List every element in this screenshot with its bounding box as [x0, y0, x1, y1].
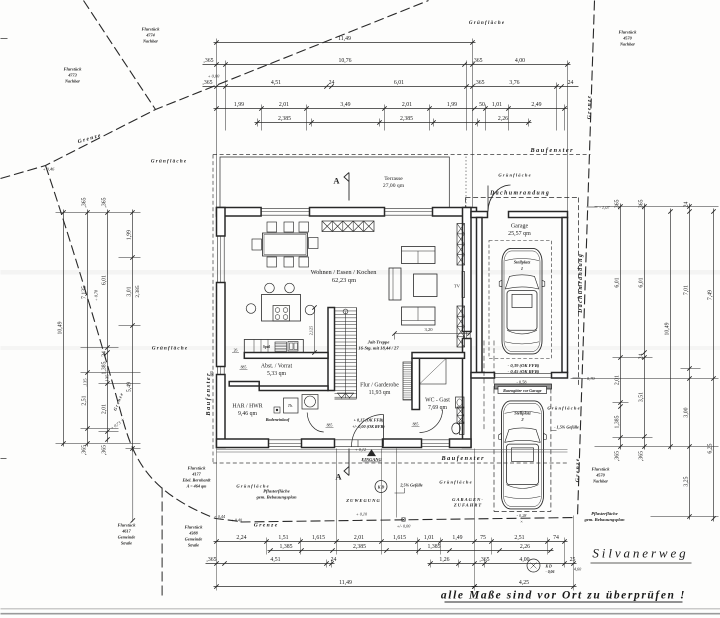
right dim chain R3: [670, 209, 672, 450]
svg-text:Flur / Garderobe: Flur / Garderobe: [360, 383, 399, 389]
svg-text:,365: ,365: [639, 199, 645, 209]
dachumrandung right line: [578, 198, 580, 386]
svg-text:2,01: 2,01: [615, 375, 621, 385]
svg-text:10,49: 10,49: [665, 322, 671, 335]
right dim chain R5: [713, 209, 715, 522]
svg-text:A = 464 qm: A = 464 qm: [186, 484, 207, 489]
svg-text:7,49: 7,49: [708, 290, 714, 300]
svg-text:7,69 qm: 7,69 qm: [428, 405, 447, 411]
svg-text:4388: 4388: [188, 531, 198, 536]
svg-text:G r ü n f l ä c h e: G r ü n f l ä c h e: [152, 347, 188, 352]
svg-text:Silvanerweg: Silvanerweg: [592, 546, 688, 561]
svg-text:,365: ,365: [82, 197, 88, 207]
garage stellplatz 1 dashed: [489, 241, 552, 359]
svg-text:11,49: 11,49: [339, 580, 352, 586]
wall kitchen-vorrat: [244, 353, 328, 359]
svg-text:1,49: 1,49: [452, 535, 462, 541]
grenze boundary bottom-left dashed vertical: [161, 488, 163, 597]
svg-text:62,23 qm: 62,23 qm: [332, 277, 356, 284]
svg-text:G r e n z e: G r e n z e: [254, 523, 278, 529]
bottom dim row 3b: [428, 563, 577, 565]
svg-text:1,615: 1,615: [312, 535, 325, 541]
svg-text:G r ü n f l ä c h e: G r ü n f l ä c h e: [151, 160, 187, 165]
svg-text:885: 885: [241, 366, 247, 370]
svg-text:A: A: [333, 176, 340, 186]
svg-text:alle Maße sind vor Ort zu über: alle Maße sind vor Ort zu überprüfen !: [441, 590, 686, 602]
bodeneinlauf symbol: [274, 407, 280, 413]
dining table: [263, 233, 308, 256]
svg-text:GARAGEN-: GARAGEN-: [452, 497, 484, 502]
right dim chain R4: [689, 204, 691, 520]
svg-text:2,385: 2,385: [135, 285, 141, 297]
svg-text:3,01: 3,01: [127, 286, 133, 296]
garage side door swing: [488, 185, 511, 212]
svg-text:Nachbar: Nachbar: [142, 39, 158, 44]
dotted vertical house corner to baufenster: [465, 157, 467, 208]
sofa bottom: [402, 307, 436, 325]
svg-text:×: ×: [360, 518, 363, 523]
svg-text:885: 885: [413, 423, 419, 427]
house top wall blocks: [217, 208, 262, 217]
wc door swing: [420, 410, 443, 433]
svg-text:G r ü n f l ä c h e: G r ü n f l ä c h e: [498, 173, 530, 178]
svg-text:gem. Bebauungsplan: gem. Bebauungsplan: [255, 495, 297, 500]
svg-text:27,00 qm: 27,00 qm: [383, 183, 405, 189]
svg-text:10,76: 10,76: [338, 58, 351, 64]
stair left wall: [328, 308, 335, 391]
house left wall window 2 (small opening): [216, 367, 218, 375]
svg-text:2,51: 2,51: [514, 535, 524, 541]
svg-text:11,93 qm: 11,93 qm: [369, 390, 391, 396]
level +-0,00: [402, 518, 406, 522]
wc toilet: [460, 422, 465, 435]
svg-text:EINGANG: EINGANG: [360, 457, 382, 462]
grenze boundary top-left diagonal: [84, 1, 156, 110]
left dim chain 4: [132, 210, 134, 452]
stair bottom arrows: [338, 393, 354, 398]
svg-text:Garage: Garage: [511, 224, 529, 230]
svg-text:Th.: Th.: [288, 403, 293, 408]
svg-text:24: 24: [329, 80, 335, 86]
stair center line: [345, 312, 347, 399]
rasengitter label box: [498, 387, 547, 394]
svg-text:G r ü n f l ä c h e: G r ü n f l ä c h e: [439, 480, 471, 485]
svg-text:B a u f e n s t e r: B a u f e n s t e r: [440, 455, 484, 462]
wall vorrat bottom: [229, 382, 259, 387]
svg-text:9,46 qm: 9,46 qm: [238, 411, 257, 417]
kitchen island: [262, 295, 301, 322]
svg-text:5,33 qm: 5,33 qm: [267, 371, 286, 377]
garage door opening bottom: [495, 372, 552, 374]
svg-text:Spül: Spül: [263, 345, 271, 349]
shelf column bottom: [457, 306, 465, 347]
svg-text:Pflasterfläche: Pflasterfläche: [263, 489, 290, 494]
car 1 in garage: [502, 248, 542, 354]
svg-text:gem. Bebauungsplan: gem. Bebauungsplan: [583, 517, 625, 522]
svg-text:50: 50: [479, 102, 485, 108]
svg-text:WC - Gast: WC - Gast: [425, 398, 450, 404]
svg-text:6,01: 6,01: [639, 277, 645, 287]
svg-text:Flurstück: Flurstück: [64, 67, 83, 72]
svg-text:25: 25: [570, 557, 576, 563]
svg-text:G r e n z e: G r e n z e: [587, 95, 593, 119]
svg-text:HAR / HWR: HAR / HWR: [232, 404, 262, 410]
house right wall block: [463, 208, 472, 332]
svg-text:24: 24: [102, 351, 108, 357]
bottom dim row 3a: [206, 563, 335, 565]
svg-text:1,51: 1,51: [278, 535, 288, 541]
svg-text:- 1,5% Gefälle: - 1,5% Gefälle: [554, 425, 579, 430]
garage left wall: [477, 218, 483, 373]
wall wc left: [412, 358, 420, 409]
svg-text:4773: 4773: [67, 73, 76, 78]
svg-text:,365: ,365: [472, 58, 482, 64]
svg-text:3,00: 3,00: [684, 407, 690, 417]
left dim chain 10,49: [63, 210, 65, 447]
svg-text:,365: ,365: [206, 557, 216, 563]
svg-text:4,00: 4,00: [515, 58, 525, 64]
svg-text:Stellplatz: Stellplatz: [514, 260, 531, 265]
svg-text:Flurstück: Flurstück: [592, 467, 611, 472]
svg-text:Gemeinde: Gemeinde: [185, 537, 203, 542]
svg-text:2,24: 2,24: [236, 535, 246, 541]
dachumrandung top line: [466, 197, 579, 199]
left dim connectors: [56, 212, 141, 214]
left edge mark top: [1, 38, 8, 40]
svg-text:885: 885: [210, 371, 214, 377]
pavement edge lines: [217, 449, 568, 451]
svg-text:K D: K D: [545, 565, 552, 569]
svg-text:26: 26: [234, 349, 238, 353]
svg-text:11,49: 11,49: [338, 36, 351, 42]
top dim row 1 (11,49): [214, 42, 476, 44]
kitchen counter dividers: [253, 340, 255, 353]
svg-text:Flurstück: Flurstück: [185, 525, 204, 530]
left edge mark bottom: [1, 458, 7, 460]
wall wc top: [412, 353, 465, 359]
grenze bottom horizontal: [241, 518, 577, 523]
svg-text:6,01: 6,01: [394, 80, 404, 86]
svg-text:24: 24: [639, 354, 645, 360]
har th box: [284, 398, 299, 413]
bottom dim row 2: [268, 550, 554, 552]
house entrance door opening: [335, 439, 383, 441]
svg-text:Ebel. Bernhardt: Ebel. Bernhardt: [182, 478, 212, 483]
svg-text:16-Stg. mit 18,44 / 27: 16-Stg. mit 18,44 / 27: [358, 346, 399, 351]
svg-text:2,26: 2,26: [498, 116, 508, 122]
svg-text:,365: ,365: [202, 80, 212, 86]
svg-text:3,76: 3,76: [509, 80, 519, 86]
svg-text:,365: ,365: [639, 451, 645, 461]
dim 3,20 living: [395, 333, 470, 335]
garage bottom wall blocks: [471, 373, 495, 379]
left dim chain 2: [87, 210, 89, 447]
svg-text:1,01: 1,01: [424, 535, 434, 541]
svg-text:1,385: 1,385: [615, 415, 621, 428]
svg-text:4774: 4774: [145, 33, 154, 38]
kd circle: [375, 481, 387, 493]
svg-text:4,51: 4,51: [270, 557, 280, 563]
svg-text:+/- 0,00 (OK RFB): +/- 0,00 (OK RFB): [352, 424, 385, 429]
bottom dim vertical connectors: [216, 449, 218, 591]
house left wall window 1: [216, 236, 218, 283]
stair treads: [335, 307, 357, 309]
svg-text:Gemeinde: Gemeinde: [118, 535, 136, 540]
svg-text:75: 75: [480, 535, 486, 541]
svg-text:2,5% Gefälle: 2,5% Gefälle: [399, 482, 422, 487]
svg-text:2,385: 2,385: [400, 116, 413, 122]
svg-text:ZUWEGUNG: ZUWEGUNG: [345, 498, 381, 503]
svg-text:3,51: 3,51: [639, 392, 645, 402]
bottom dim row 4b: [472, 586, 577, 588]
kitchen stove: [273, 306, 290, 322]
svg-text:7,135: 7,135: [82, 286, 88, 299]
top dim row 5: [255, 122, 532, 124]
svg-text:1,99: 1,99: [127, 230, 133, 240]
svg-text:B a u f e n s t e r: B a u f e n s t e r: [205, 373, 212, 417]
svg-text:- 0,39 (OK FFB): - 0,39 (OK FFB): [508, 363, 540, 368]
coffee table: [414, 274, 438, 297]
garage right wall: [562, 218, 568, 373]
svg-text:D a c h u m r a n d u n g: D a c h u m r a n d u n g: [489, 191, 549, 197]
svg-text:TV: TV: [454, 284, 461, 289]
svg-text:,365: ,365: [615, 199, 621, 209]
svg-text:4617: 4617: [121, 529, 131, 534]
svg-text:Flurstück: Flurstück: [118, 523, 137, 528]
house bottom wall window 2: [422, 439, 450, 441]
bottom dim row 1: [214, 541, 568, 543]
svg-text:Jalt-Treppe: Jalt-Treppe: [367, 340, 390, 345]
top dim row 2 (10,76 / 4,00): [203, 64, 571, 66]
svg-text:4,51: 4,51: [271, 80, 281, 86]
svg-text:1,26: 1,26: [439, 557, 449, 563]
house left wall blocks: [217, 208, 226, 237]
svg-text:,365: ,365: [82, 445, 88, 455]
svg-text:Wohnen / Essen / Kochen: Wohnen / Essen / Kochen: [311, 269, 378, 276]
svg-text:Flurstück: Flurstück: [619, 30, 638, 35]
kitchen upper cabinet X band: [322, 221, 374, 232]
svg-text:- 0,06: - 0,06: [546, 570, 555, 574]
svg-text:2,01: 2,01: [279, 102, 289, 108]
scan bottom gray line: [1, 608, 720, 610]
dining chairs: [267, 222, 277, 232]
svg-text:2,49: 2,49: [531, 102, 541, 108]
house top wall window 1: [261, 207, 309, 209]
svg-text:1,99: 1,99: [447, 102, 457, 108]
island stools: [265, 283, 275, 293]
svg-text:,365: ,365: [474, 80, 484, 86]
svg-text:+ 0,17 (OK FFB): + 0,17 (OK FFB): [354, 418, 384, 423]
svg-text:Rasengitter vor Garage: Rasengitter vor Garage: [503, 388, 542, 393]
svg-text:2,51: 2,51: [82, 395, 88, 405]
eingang marker: [367, 449, 376, 456]
stellplatz 2 dashed edges: [493, 389, 495, 512]
right dim connectors: [595, 206, 719, 208]
grenze boundary right vertical: [578, 1, 595, 517]
svg-text:10,49: 10,49: [58, 321, 64, 334]
svg-text:4570: 4570: [622, 36, 632, 41]
svg-text:,365: ,365: [203, 58, 213, 64]
shelf column top: [457, 224, 465, 266]
har door arc: [307, 413, 324, 433]
wc shower: [420, 359, 447, 385]
svg-text:Nachbar: Nachbar: [64, 79, 80, 84]
grenze boundary left curve: [46, 166, 241, 522]
grenze boundary long diagonal: [1, 1, 429, 179]
svg-text:Abst. / Vorrat: Abst. / Vorrat: [261, 364, 293, 370]
baufenster bottom line: [213, 462, 569, 464]
svg-text:2,01: 2,01: [354, 535, 364, 541]
svg-text:Straße: Straße: [188, 543, 199, 548]
svg-text:D a c h u m r a n d u n g: D a c h u m r a n d u n g: [578, 254, 584, 314]
kitchen sink: [288, 342, 298, 352]
svg-text:G r ü n f l ä c h e: G r ü n f l ä c h e: [547, 406, 579, 411]
svg-text:4570: 4570: [595, 473, 605, 478]
svg-text:1,01: 1,01: [492, 102, 502, 108]
svg-text:1: 1: [521, 266, 523, 271]
svg-text:G r ü n f l ä c h e: G r ü n f l ä c h e: [469, 21, 505, 26]
scan streak 1: [1, 270, 720, 275]
kitchen counter: [244, 340, 303, 353]
leader line entrance: [396, 449, 398, 518]
svg-text:Nachbar: Nachbar: [592, 479, 608, 484]
top dim row 3: [203, 86, 579, 88]
svg-text:B a u f e n s t e r: B a u f e n s t e r: [529, 147, 573, 154]
svg-text:2,385: 2,385: [278, 116, 291, 122]
flur wardrobe: [403, 362, 412, 400]
dachumrandung gap verticals: [483, 341, 485, 431]
har sink: [302, 395, 318, 410]
baufenster top line: [213, 154, 591, 156]
svg-text:1,615: 1,615: [393, 535, 406, 541]
right dim chain R1: [620, 204, 622, 450]
svg-text:1,99: 1,99: [234, 102, 244, 108]
kitchen dishwasher: [275, 342, 287, 352]
right dim chain R2: [644, 204, 646, 450]
house bottom wall blocks: [217, 439, 269, 448]
entrance door arc: [352, 415, 384, 447]
stair right edge: [356, 308, 358, 399]
svg-text:24: 24: [568, 80, 574, 86]
top dim vertical connectors: [216, 39, 218, 208]
dim 2,125 stair: [314, 308, 316, 353]
svg-text:Pflasterfläche: Pflasterfläche: [591, 511, 618, 516]
left dim chain 3: [107, 210, 109, 443]
svg-text:6,25: 6,25: [708, 443, 714, 453]
svg-text:6,01: 6,01: [102, 275, 108, 285]
garage top wall blocks: [471, 212, 488, 218]
svg-text:- 0,45 (OK RFB): - 0,45 (OK RFB): [508, 369, 540, 374]
dachumrandung left segment: [465, 198, 467, 208]
svg-text:G r e n z e: G r e n z e: [575, 458, 581, 482]
svg-text:6,01: 6,01: [615, 277, 621, 287]
svg-text:74: 74: [553, 535, 559, 541]
svg-text:Straße: Straße: [121, 541, 132, 546]
sofa left: [389, 268, 401, 300]
svg-text:,365: ,365: [102, 197, 108, 207]
svg-text:1,385: 1,385: [427, 544, 440, 550]
svg-text:,365: ,365: [615, 451, 621, 461]
svg-text:2,01: 2,01: [402, 102, 412, 108]
svg-text:ZUFAHRT: ZUFAHRT: [453, 503, 482, 508]
house top wall window 2 (terrace door): [385, 207, 433, 209]
wc shelf box: [457, 407, 464, 424]
svg-text:Nachbar: Nachbar: [619, 42, 635, 47]
sofa top: [402, 247, 436, 264]
svg-text:Flurstück: Flurstück: [142, 27, 161, 32]
top dim row 4: [214, 108, 568, 110]
svg-text:2,01: 2,01: [102, 404, 108, 414]
wc sink: [456, 397, 465, 408]
svg-text:1,385: 1,385: [279, 544, 292, 550]
svg-text:2,26: 2,26: [520, 544, 530, 550]
scan streak 2: [1, 346, 720, 350]
svg-text:7,01: 7,01: [684, 285, 690, 295]
svg-text:4177: 4177: [191, 472, 201, 477]
car 2 on driveway: [502, 401, 544, 509]
svg-text:K D: K D: [377, 485, 385, 490]
svg-text:Terrasse: Terrasse: [384, 176, 403, 182]
svg-text:,365: ,365: [102, 445, 108, 455]
svg-text:4,25: 4,25: [519, 580, 529, 586]
scan bottom dark band: [1, 613, 720, 615]
svg-text:25,57 qm: 25,57 qm: [508, 231, 531, 237]
baufenster left line: [212, 155, 214, 463]
terrace outline: [220, 157, 449, 208]
svg-text:3,25: 3,25: [684, 476, 690, 486]
tv: [462, 272, 465, 298]
kd circle bottom: [527, 559, 540, 572]
svg-text:Flurstück: Flurstück: [188, 466, 207, 471]
svg-text:2,385: 2,385: [353, 544, 366, 550]
svg-text:3,49: 3,49: [340, 102, 350, 108]
rasengitter strip: [495, 384, 552, 389]
svg-text:Stellplatz: Stellplatz: [514, 411, 531, 416]
svg-text:×: ×: [520, 519, 523, 524]
house bottom wall window 1: [269, 439, 302, 441]
svg-text:885: 885: [327, 424, 333, 428]
house right wall passage: [462, 332, 464, 339]
svg-text:×: ×: [121, 419, 124, 424]
bottom dim row 4a: [214, 586, 478, 588]
svg-text:Bodeneinlauf: Bodeneinlauf: [265, 417, 290, 422]
